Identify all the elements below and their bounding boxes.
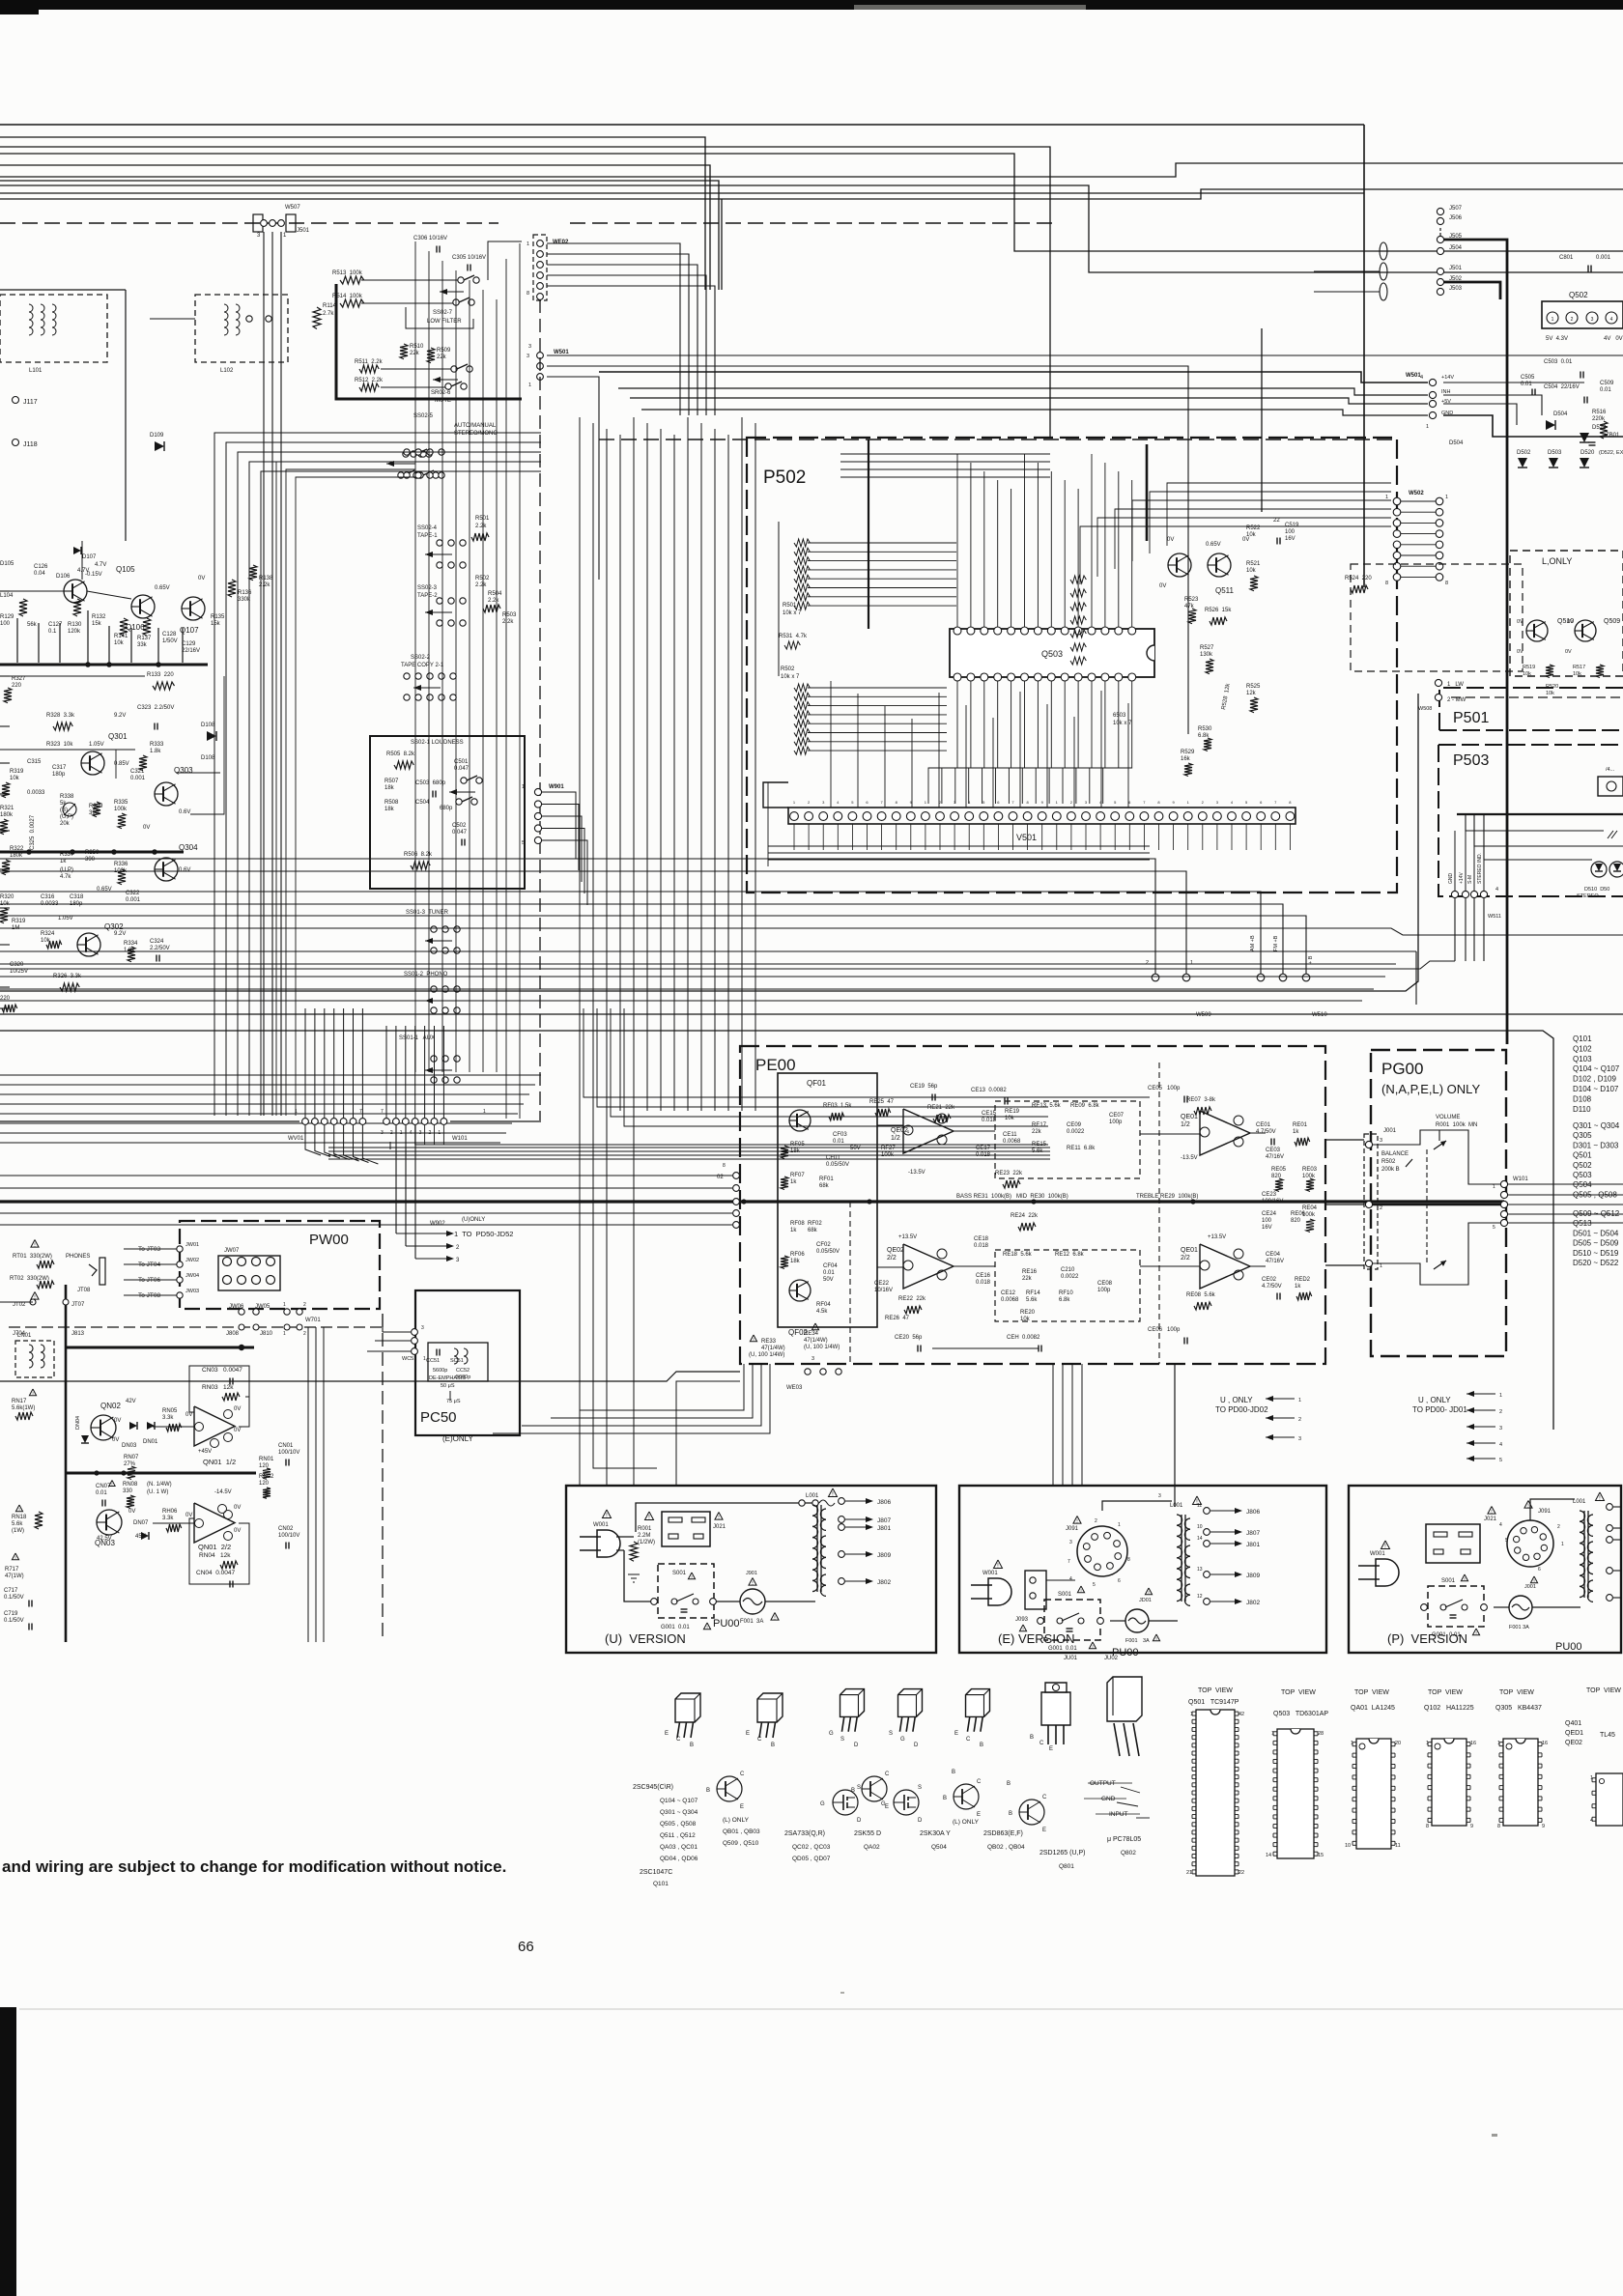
- svg-text:33k: 33k: [137, 642, 148, 648]
- svg-text:5.6k: 5.6k: [1032, 1148, 1043, 1154]
- svg-text:QE02: QE02: [891, 1127, 908, 1134]
- svg-text:100p: 100p: [1109, 1120, 1123, 1125]
- svg-text:9.2V: 9.2V: [114, 713, 126, 719]
- svg-text:47(1/4W): 47(1/4W): [804, 1338, 828, 1344]
- svg-text:1.05V: 1.05V: [58, 916, 73, 921]
- svg-text:0V: 0V: [234, 1428, 241, 1433]
- svg-text:F001 3A: F001 3A: [740, 1619, 763, 1625]
- svg-text:-14.5V: -14.5V: [214, 1489, 232, 1495]
- svg-text:CF01: CF01: [826, 1155, 840, 1161]
- svg-text:μ PC78L05: μ PC78L05: [1107, 1836, 1141, 1843]
- svg-text:+14V: +14V: [1459, 872, 1465, 884]
- svg-text:1: 1: [1426, 1741, 1429, 1746]
- svg-text:Q505 , Q508: Q505 , Q508: [1573, 1190, 1617, 1199]
- svg-text:TAPE COPY 2-1: TAPE COPY 2-1: [401, 663, 444, 668]
- svg-text:100k: 100k: [1302, 1174, 1316, 1179]
- svg-text:QE02: QE02: [1565, 1740, 1582, 1746]
- svg-text:R001: R001: [638, 1526, 652, 1532]
- svg-text:CE01: CE01: [1256, 1122, 1271, 1128]
- svg-text:3: 3: [811, 1356, 814, 1362]
- svg-text:R511 2.2k: R511 2.2k: [355, 359, 384, 365]
- svg-text:WE02: WE02: [553, 240, 569, 245]
- svg-text:D: D: [857, 1818, 862, 1824]
- svg-text:R531 4.7k: R531 4.7k: [779, 634, 808, 639]
- svg-text:J801: J801: [1246, 1542, 1260, 1548]
- svg-text:1: 1: [1385, 495, 1388, 500]
- svg-text:C320: C320: [10, 962, 24, 968]
- svg-text:3A: 3A: [1143, 1638, 1150, 1644]
- svg-text:JW07: JW07: [224, 1248, 240, 1254]
- svg-text:RN02: RN02: [259, 1474, 274, 1480]
- svg-text:W901: W901: [549, 784, 564, 790]
- svg-text:R135: R135: [211, 614, 225, 620]
- svg-text:FM +B: FM +B: [1273, 935, 1279, 951]
- svg-text:E: E: [1042, 1828, 1046, 1833]
- svg-text:R324: R324: [41, 931, 55, 937]
- svg-text:DN07: DN07: [133, 1520, 149, 1526]
- svg-text:C: C: [1039, 1741, 1044, 1746]
- svg-text:W508: W508: [1418, 706, 1432, 712]
- svg-text:W001: W001: [1370, 1551, 1385, 1557]
- svg-text:(U, 100 1/4W): (U, 100 1/4W): [749, 1352, 784, 1358]
- svg-text:J802: J802: [1246, 1600, 1260, 1606]
- svg-text:Q511: Q511: [1215, 586, 1235, 595]
- svg-text:SS02-2: SS02-2: [411, 655, 431, 661]
- svg-text:and wiring are subject to chan: and wiring are subject to change for mod…: [2, 1857, 506, 1876]
- svg-text:CE12: CE12: [1001, 1290, 1016, 1296]
- svg-text:10/25V: 10/25V: [10, 969, 28, 975]
- svg-text:0.0022: 0.0022: [1061, 1274, 1079, 1280]
- svg-text:0.001: 0.001: [126, 897, 141, 903]
- svg-text:5.6k: 5.6k: [1026, 1297, 1038, 1303]
- svg-text:(1/2W): (1/2W): [638, 1540, 655, 1545]
- svg-text:100/10V: 100/10V: [278, 1533, 299, 1539]
- svg-text:S001: S001: [672, 1571, 687, 1576]
- svg-text:C305 10/16V: C305 10/16V: [452, 255, 486, 261]
- svg-text:R137: R137: [137, 636, 152, 641]
- svg-text:G: G: [829, 1731, 834, 1737]
- svg-text:CE02: CE02: [1262, 1277, 1277, 1283]
- svg-text:16k: 16k: [1181, 756, 1191, 762]
- svg-text:C: C: [740, 1772, 745, 1777]
- svg-text:QN01 2/2: QN01 2/2: [198, 1543, 231, 1551]
- svg-text:J001: J001: [1524, 1584, 1536, 1590]
- svg-text:R501: R501: [475, 516, 490, 522]
- svg-text:1: 1: [283, 1302, 286, 1308]
- svg-text:D105: D105: [0, 561, 14, 567]
- svg-text:E: E: [746, 1731, 750, 1737]
- svg-text:0V: 0V: [185, 1412, 192, 1418]
- svg-text:1: 1: [1552, 317, 1554, 323]
- svg-text:3: 3: [1069, 1540, 1072, 1545]
- svg-text:0V: 0V: [234, 1505, 241, 1511]
- svg-text:1: 1: [1118, 1522, 1121, 1528]
- svg-text:!: !: [691, 1574, 692, 1580]
- svg-text:C: C: [676, 1737, 681, 1743]
- svg-text:RE22 22k: RE22 22k: [898, 1296, 926, 1302]
- svg-text:D501 ~ D504: D501 ~ D504: [1573, 1229, 1619, 1237]
- svg-text:C: C: [757, 1737, 762, 1743]
- svg-text:QE02: QE02: [887, 1247, 904, 1254]
- svg-text:E: E: [1049, 1746, 1053, 1752]
- svg-text:J807: J807: [1246, 1530, 1260, 1537]
- svg-text:0.85V: 0.85V: [114, 761, 129, 767]
- svg-text:Q513: Q513: [1573, 1219, 1592, 1228]
- svg-text:C318: C318: [70, 894, 84, 900]
- svg-text:C315: C315: [27, 759, 42, 765]
- svg-text:5600p: 5600p: [433, 1368, 447, 1374]
- svg-text:1 LW: 1 LW: [1447, 682, 1464, 688]
- svg-text:RH06: RH06: [162, 1509, 178, 1515]
- svg-text:0.05/50V: 0.05/50V: [826, 1162, 849, 1168]
- svg-text:Q101: Q101: [653, 1881, 669, 1887]
- svg-text:5: 5: [1493, 1225, 1495, 1231]
- svg-text:W101: W101: [1513, 1176, 1528, 1182]
- svg-text:1: 1: [295, 1109, 298, 1115]
- svg-text:15k: 15k: [92, 621, 102, 627]
- svg-text:1: 1: [438, 1130, 441, 1136]
- svg-text:0V: 0V: [1159, 583, 1166, 589]
- svg-text:2SK30A Y: 2SK30A Y: [920, 1830, 951, 1837]
- svg-text:R334: R334: [124, 941, 138, 947]
- svg-text:R530: R530: [1198, 726, 1212, 732]
- svg-text:JT02: JT02: [13, 1302, 26, 1308]
- svg-text:C128: C128: [162, 632, 177, 638]
- svg-text:0.05/50V: 0.05/50V: [816, 1249, 840, 1255]
- svg-text:RE25 47: RE25 47: [869, 1099, 895, 1105]
- svg-text:D102 , D109: D102 , D109: [1573, 1075, 1616, 1084]
- svg-text:R114: R114: [323, 303, 337, 309]
- svg-text:R526 15k: R526 15k: [1205, 608, 1232, 613]
- svg-text:1: 1: [1561, 1542, 1564, 1547]
- svg-text:2SC1047C: 2SC1047C: [640, 1869, 672, 1876]
- svg-text:CE08: CE08: [1097, 1281, 1113, 1287]
- svg-text:200k B: 200k B: [1381, 1167, 1400, 1173]
- svg-text:CF04: CF04: [823, 1263, 838, 1269]
- svg-text:!: !: [1464, 1576, 1465, 1582]
- svg-text:B: B: [1007, 1781, 1011, 1787]
- svg-text:L,ONLY: L,ONLY: [1542, 556, 1572, 566]
- svg-text:0.0068: 0.0068: [1003, 1139, 1021, 1145]
- svg-text:CE06 100p: CE06 100p: [1148, 1327, 1181, 1333]
- svg-text:R319: R319: [10, 769, 24, 775]
- svg-text:G001 0.01: G001 0.01: [1432, 1632, 1461, 1638]
- svg-text:2: 2: [303, 1302, 306, 1308]
- svg-text:0.018: 0.018: [982, 1118, 997, 1123]
- svg-text:R512 2.2k: R512 2.2k: [355, 378, 384, 383]
- svg-text:L001: L001: [1573, 1499, 1586, 1505]
- svg-text:W501: W501: [1406, 373, 1421, 379]
- svg-text:Q106: Q106: [126, 623, 145, 632]
- svg-text:0.0068: 0.0068: [1001, 1297, 1019, 1303]
- svg-text:OUTPUT: OUTPUT: [1090, 1780, 1116, 1787]
- svg-text:R525: R525: [1246, 684, 1261, 690]
- svg-text:E: E: [977, 1812, 981, 1818]
- svg-text:R503: R503: [502, 612, 517, 618]
- svg-text:DN03: DN03: [122, 1443, 137, 1449]
- svg-text:2: 2: [1146, 960, 1149, 966]
- svg-text:100: 100: [1262, 1218, 1272, 1224]
- svg-text:20: 20: [1395, 1741, 1401, 1746]
- svg-text:2: 2: [1557, 1524, 1560, 1530]
- svg-text:RE18 5.6k: RE18 5.6k: [1003, 1252, 1033, 1258]
- svg-text:QD05 , QD07: QD05 , QD07: [792, 1856, 831, 1862]
- svg-text:RN05: RN05: [162, 1408, 178, 1414]
- svg-text:D: D: [854, 1743, 859, 1748]
- svg-text:330: 330: [123, 1488, 133, 1494]
- svg-text:G001 0.01: G001 0.01: [661, 1625, 690, 1630]
- svg-text:12k: 12k: [1246, 691, 1257, 696]
- svg-text:QE01: QE01: [1181, 1114, 1198, 1120]
- svg-text:G: G: [881, 1801, 886, 1807]
- svg-text:RE05: RE05: [1271, 1167, 1287, 1173]
- svg-text:(U. 1 W): (U. 1 W): [147, 1489, 168, 1495]
- svg-text:D108: D108: [1573, 1094, 1592, 1103]
- svg-text:Q305: Q305: [1573, 1131, 1592, 1140]
- svg-text:CE11: CE11: [1003, 1132, 1017, 1138]
- svg-text:J806: J806: [1246, 1509, 1260, 1516]
- svg-text:R335: R335: [114, 800, 128, 806]
- svg-text:E: E: [954, 1731, 958, 1737]
- svg-text:D108: D108: [201, 723, 215, 728]
- svg-text:RN18: RN18: [12, 1515, 27, 1520]
- svg-text:8: 8: [723, 1163, 726, 1169]
- svg-text:JD01: JD01: [1139, 1598, 1152, 1603]
- svg-text:2: 2: [1571, 317, 1574, 323]
- svg-text:4.7V: 4.7V: [95, 562, 106, 568]
- svg-text:CE19 56p: CE19 56p: [910, 1084, 938, 1090]
- svg-text:J901: J901: [746, 1571, 757, 1576]
- svg-text:J506: J506: [1449, 215, 1463, 221]
- svg-text:W001: W001: [593, 1522, 609, 1528]
- svg-text:0.001: 0.001: [130, 776, 146, 781]
- svg-text:1.05V: 1.05V: [89, 742, 104, 748]
- svg-text:JW03: JW03: [185, 1289, 199, 1294]
- svg-text:J021: J021: [1484, 1516, 1497, 1522]
- svg-text:1: 1: [1445, 495, 1448, 500]
- svg-text:1: 1: [1590, 1775, 1593, 1781]
- svg-text:CF02: CF02: [816, 1242, 831, 1248]
- svg-text:Q104 ~ Q107: Q104 ~ Q107: [660, 1798, 698, 1804]
- svg-text:2.7k: 2.7k: [323, 311, 334, 317]
- svg-text:!: !: [1022, 1627, 1023, 1632]
- svg-text:R502: R502: [1381, 1159, 1396, 1165]
- svg-text:Q509: Q509: [1604, 618, 1620, 625]
- svg-text:Q503: Q503: [1573, 1171, 1592, 1179]
- svg-text:RN01: RN01: [259, 1457, 274, 1462]
- svg-text:8: 8: [1445, 581, 1448, 586]
- svg-text:0V: 0V: [1567, 619, 1574, 625]
- svg-text:180k: 180k: [10, 853, 23, 859]
- svg-text:TO PD00-JD02: TO PD00-JD02: [1215, 1405, 1268, 1414]
- svg-text:2/2: 2/2: [887, 1255, 897, 1261]
- svg-text:CN07: CN07: [96, 1484, 111, 1489]
- svg-text:Q302: Q302: [104, 922, 124, 931]
- svg-text:1/2: 1/2: [1181, 1121, 1190, 1128]
- svg-text:0.65V: 0.65V: [1206, 542, 1221, 548]
- svg-text:1: 1: [1497, 1741, 1500, 1746]
- svg-text:(U,P): (U,P): [60, 867, 73, 873]
- svg-text:C306 10/16V: C306 10/16V: [413, 236, 447, 241]
- svg-text:PU00: PU00: [713, 1618, 740, 1630]
- svg-text:0.018: 0.018: [976, 1280, 991, 1286]
- svg-text:2.2k: 2.2k: [475, 524, 487, 529]
- svg-text:47(1/4W): 47(1/4W): [761, 1346, 785, 1351]
- svg-text:R337: R337: [60, 852, 74, 858]
- svg-text:RE04: RE04: [1302, 1205, 1318, 1211]
- svg-text:D301 ~ D303: D301 ~ D303: [1573, 1141, 1619, 1149]
- svg-text:0V: 0V: [1517, 649, 1523, 655]
- svg-text:22k: 22k: [410, 351, 420, 356]
- svg-text:8: 8: [1127, 1557, 1130, 1563]
- svg-text:Q105: Q105: [116, 565, 135, 574]
- svg-text:+14V: +14V: [1441, 375, 1454, 381]
- svg-text:RE34: RE34: [804, 1331, 819, 1337]
- svg-text:!: !: [1080, 1588, 1081, 1594]
- svg-text:R502: R502: [475, 576, 490, 581]
- svg-text:U , ONLY: U , ONLY: [1220, 1396, 1253, 1404]
- svg-text:PHONES: PHONES: [66, 1254, 90, 1260]
- svg-text:(N. 1/4W): (N. 1/4W): [147, 1482, 172, 1488]
- svg-text:21: 21: [1186, 1870, 1192, 1876]
- svg-text:D107: D107: [82, 554, 97, 560]
- svg-text:F001 3A: F001 3A: [1509, 1625, 1529, 1630]
- svg-text:100: 100: [0, 621, 11, 627]
- svg-text:!: !: [18, 1507, 19, 1513]
- svg-text:C503 0.01: C503 0.01: [1544, 359, 1573, 365]
- svg-text:6.8k: 6.8k: [1059, 1297, 1070, 1303]
- svg-text:QA01 LA1245: QA01 LA1245: [1351, 1705, 1395, 1712]
- svg-text:R514 100k: R514 100k: [332, 294, 363, 299]
- svg-text:1: 1: [522, 784, 525, 790]
- svg-text:B: B: [771, 1743, 775, 1748]
- svg-text:2.2k: 2.2k: [488, 598, 499, 604]
- svg-text:100: 100: [1285, 529, 1296, 535]
- svg-text:RE08 5.6k: RE08 5.6k: [1186, 1292, 1216, 1298]
- svg-text:42: 42: [1239, 1712, 1244, 1717]
- svg-text:J503: J503: [1449, 286, 1463, 292]
- svg-text:CE07: CE07: [1109, 1113, 1125, 1119]
- svg-text:0V: 0V: [185, 1513, 192, 1518]
- svg-text:DN01: DN01: [143, 1439, 158, 1445]
- svg-text:120: 120: [259, 1481, 270, 1487]
- svg-text:0.018: 0.018: [974, 1243, 989, 1249]
- svg-text:2.2k: 2.2k: [259, 582, 270, 588]
- svg-text:W507: W507: [285, 205, 300, 211]
- svg-text:!: !: [32, 1391, 33, 1397]
- svg-text:R507: R507: [384, 779, 399, 784]
- svg-text:20k: 20k: [60, 821, 71, 827]
- svg-text:Q502: Q502: [1573, 1161, 1592, 1170]
- svg-text:R138: R138: [259, 576, 273, 581]
- svg-text:J001: J001: [1383, 1128, 1397, 1134]
- svg-text:TL45: TL45: [1600, 1732, 1615, 1739]
- svg-text:4: 4: [1499, 1522, 1502, 1528]
- svg-text:JT08: JT08: [77, 1288, 91, 1293]
- svg-text:2: 2: [303, 1331, 306, 1337]
- svg-text:B: B: [690, 1743, 694, 1748]
- svg-text:Q503: Q503: [1041, 649, 1063, 659]
- svg-text:R320: R320: [0, 894, 14, 900]
- svg-text:(U) VERSION: (U) VERSION: [605, 1631, 686, 1646]
- svg-text:3: 3: [1380, 1138, 1382, 1144]
- svg-text:RF05: RF05: [790, 1142, 805, 1148]
- svg-text:S-M: S-M: [1467, 875, 1473, 884]
- svg-text:D503: D503: [1548, 450, 1562, 456]
- svg-text:16: 16: [1470, 1741, 1476, 1746]
- svg-text:R319: R319: [12, 919, 26, 924]
- svg-text:CN03 0.0047: CN03 0.0047: [202, 1367, 242, 1374]
- svg-text:S: S: [889, 1731, 893, 1737]
- svg-text:D505 ~ D509: D505 ~ D509: [1573, 1239, 1619, 1248]
- svg-text:G: G: [900, 1737, 905, 1743]
- svg-text:3: 3: [1298, 1436, 1301, 1442]
- svg-text:180p: 180p: [52, 772, 66, 778]
- svg-text:10k x 7: 10k x 7: [783, 610, 802, 616]
- svg-text:P503: P503: [1453, 752, 1489, 769]
- svg-text:22: 22: [1273, 518, 1280, 524]
- svg-text:CE18: CE18: [974, 1236, 989, 1242]
- svg-text:C519: C519: [1285, 523, 1299, 528]
- svg-text:2: 2: [1298, 1417, 1301, 1423]
- svg-text:J807: J807: [877, 1517, 891, 1524]
- svg-text:0V: 0V: [114, 1418, 121, 1424]
- svg-text:J802: J802: [877, 1579, 891, 1586]
- svg-text:390: 390: [85, 857, 96, 863]
- svg-text:CE17: CE17: [976, 1146, 991, 1151]
- svg-text:QB02 , QB04: QB02 , QB04: [987, 1844, 1025, 1851]
- svg-text:C503 680p: C503 680p: [415, 780, 446, 786]
- svg-text:RE21 22k: RE21 22k: [927, 1105, 955, 1111]
- svg-text:15k: 15k: [211, 621, 221, 627]
- svg-text:CE04: CE04: [1266, 1252, 1281, 1258]
- svg-text:130k: 130k: [1200, 652, 1213, 658]
- svg-text:R509: R509: [437, 348, 451, 354]
- svg-text:RE33: RE33: [761, 1339, 777, 1345]
- svg-text:47/16V: 47/16V: [1266, 1259, 1284, 1264]
- svg-text:2: 2: [1095, 1518, 1097, 1524]
- svg-text:4: 4: [1499, 1442, 1502, 1448]
- svg-text:C505: C505: [1521, 375, 1535, 381]
- svg-text:CE16: CE16: [976, 1273, 991, 1279]
- svg-text:1/50V: 1/50V: [162, 638, 178, 644]
- svg-text:RN08: RN08: [123, 1482, 138, 1488]
- svg-text:16V: 16V: [1262, 1225, 1272, 1231]
- svg-text:3.3k: 3.3k: [162, 1516, 174, 1521]
- svg-text:5: 5: [1505, 1538, 1508, 1544]
- svg-text:10k: 10k: [1573, 671, 1581, 677]
- svg-text:0V: 0V: [143, 825, 150, 831]
- svg-text:QC02 , QC03: QC02 , QC03: [792, 1844, 831, 1851]
- svg-text:R133 220: R133 220: [147, 672, 174, 678]
- svg-text:L001: L001: [806, 1493, 819, 1499]
- svg-text:R350: R350: [85, 850, 100, 856]
- svg-text:SS02-4: SS02-4: [417, 525, 438, 531]
- svg-text:CEH 0.0082: CEH 0.0082: [1007, 1335, 1040, 1341]
- svg-text:E: E: [665, 1731, 669, 1737]
- svg-text:02: 02: [717, 1175, 724, 1180]
- svg-text:0.04: 0.04: [34, 571, 45, 577]
- svg-text:CF03: CF03: [833, 1132, 847, 1138]
- svg-text:P501: P501: [1453, 710, 1489, 726]
- svg-text:W902: W902: [430, 1221, 445, 1227]
- svg-text:3.3k: 3.3k: [162, 1415, 174, 1421]
- svg-text:1: 1: [1190, 960, 1193, 966]
- svg-text:(E) VERSION: (E) VERSION: [998, 1631, 1074, 1646]
- svg-text:0.001: 0.001: [1596, 255, 1611, 261]
- svg-text:D520: D520: [1580, 450, 1595, 456]
- svg-text:J091: J091: [1538, 1509, 1552, 1515]
